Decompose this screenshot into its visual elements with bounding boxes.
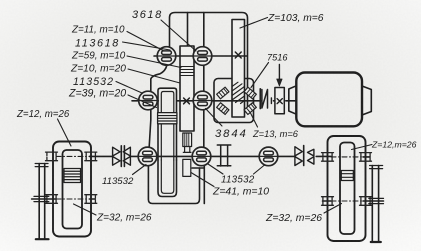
right stand bottom shaft to roll — [323, 200, 384, 202]
left roll top journal caps — [35, 164, 48, 167]
leader Z=59 — [127, 56, 181, 68]
gear coupling left: left half — [113, 147, 120, 165]
stub to lower shaft — [183, 147, 191, 153]
tapered bearing lower-left — [217, 103, 229, 115]
leader Z=32 right — [324, 204, 342, 214]
wall bearing right-bottom-left — [322, 197, 334, 206]
motor flange left — [289, 86, 297, 114]
tapered bearing 7516 upper-right — [244, 87, 256, 99]
fixed joint X on shaft I — [235, 52, 241, 58]
wall bearing right-top-left — [322, 153, 334, 162]
leader Z=103 — [240, 18, 268, 29]
fixed joint X on shaft II — [184, 98, 190, 104]
bearing 113618 shaft I left — [157, 47, 176, 66]
wall bearing left-bottom-left — [46, 195, 58, 204]
shaft tick before box — [270, 98, 272, 104]
leader 113532 lower-right pair — [208, 164, 265, 174]
wire pedestal right lower — [203, 110, 205, 147]
bearing 113532 lower shaft right — [192, 147, 211, 166]
motor bearing box with X — [275, 88, 284, 114]
left stand frame — [53, 142, 91, 237]
leader Z=10 — [128, 69, 180, 83]
pinion hatch band — [180, 67, 194, 76]
pinion column top center line — [187, 13, 189, 47]
gear coupling left: right half — [123, 146, 125, 167]
shaft II (middle / motor shaft) — [132, 100, 296, 102]
bearing 113532 lower shaft left — [138, 147, 157, 166]
wire pedestal above lower right bearing — [192, 166, 204, 204]
gear Z=39 m=20 column (wide, double wall) — [158, 88, 177, 160]
left stand bottom shaft — [32, 198, 56, 200]
tapered bearing 7516 upper-left — [217, 87, 229, 99]
bearing 113532 far right — [259, 147, 278, 166]
wall bearing right-bottom-right — [360, 197, 372, 206]
left roll bottom caps — [36, 238, 49, 240]
right stand top shaft stub — [363, 156, 370, 158]
right stand frame — [328, 136, 366, 241]
big gear hub diagonal hatch — [232, 82, 245, 103]
left roll body — [39, 164, 45, 239]
right stand gear mesh hatch — [341, 171, 353, 181]
housing upper outline — [170, 13, 248, 108]
lower shaft dash-dot in right stand — [331, 156, 363, 158]
input arrow above box — [278, 65, 280, 80]
big gear Z=103 column — [232, 20, 245, 118]
gear coupling right: left half — [295, 147, 302, 166]
bearing 113532 shaft II left — [139, 91, 158, 110]
housing inner U lower — [158, 160, 177, 197]
tapered bearing lower-right — [244, 103, 256, 115]
left stand gear column — [63, 150, 83, 229]
internal housing box upper right — [214, 79, 254, 123]
left stand bottom shaft dash — [56, 198, 90, 200]
leader Z=32 left — [74, 204, 97, 215]
leader 3618 to bearing — [161, 20, 196, 51]
lower shaft dash-dot in left stand — [56, 155, 90, 157]
leader Z=41 — [191, 173, 214, 187]
wall bearing left-top-left — [46, 152, 58, 161]
gear Z=39 hatched rim — [158, 113, 177, 124]
electric motor body — [296, 73, 362, 127]
left stand bottom shaft stub — [90, 198, 96, 200]
spring coupling flange left — [259, 89, 261, 109]
splined box below pinion — [183, 133, 192, 147]
left stand gear mesh hatch — [64, 169, 81, 183]
pinion column (Z=11 / Z=10 block) — [180, 46, 194, 131]
leader Z=12 left — [58, 119, 72, 146]
housing left wall S-curve past bearing — [148, 66, 199, 204]
right roll body — [372, 166, 378, 242]
leader 7516 — [251, 63, 269, 88]
right roll shaft crossing caps — [369, 198, 384, 203]
wire pedestal between bearings right — [203, 65, 205, 92]
right stand gear column — [340, 143, 355, 235]
bearing 3618 shaft I right — [193, 47, 212, 66]
leader Z=12 right — [352, 145, 373, 150]
wall bearing right-top-right — [360, 153, 372, 162]
wall bearing left-top-right — [85, 152, 97, 161]
bearing 3844 shaft II right — [193, 91, 212, 110]
leader 113532 lower-left — [133, 165, 147, 175]
gear coupling right: right half — [308, 149, 314, 164]
right roll top caps — [370, 166, 383, 169]
shaft I (top) — [154, 55, 247, 57]
motor flange right — [362, 86, 371, 115]
left roll shaft crossing caps — [34, 196, 49, 201]
right stand bottom shaft dash — [331, 200, 363, 202]
leader 113618 — [123, 42, 171, 50]
leader 113532 upper — [116, 82, 142, 94]
leader Z=13 — [251, 113, 258, 127]
spring coupling zigzag И — [262, 90, 268, 109]
lower shaft (mill line) — [90, 155, 332, 157]
leader 3844 — [206, 109, 223, 127]
leader Z=11 — [127, 32, 163, 51]
housing bearing pedestal line right — [203, 13, 205, 48]
right roll bottom caps — [371, 241, 381, 243]
leader Z=39 — [128, 95, 157, 108]
gear Z=41 box below lower shaft — [183, 159, 191, 176]
wall bearing left-bottom-right — [85, 195, 97, 204]
rigid coupling center-right — [217, 145, 231, 166]
